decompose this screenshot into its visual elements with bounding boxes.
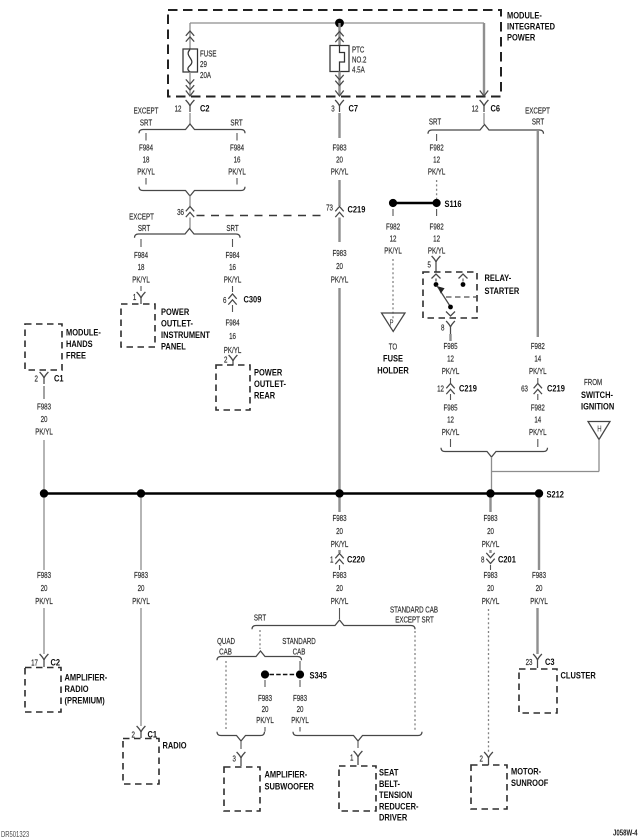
fuse F1: FUSE 29 20A [183,49,198,72]
label: drawing number DR501323 [1,830,29,839]
wire F982 12 PK/YL to relay pin 5 [428,209,446,256]
svg-text:REDUCER-: REDUCER- [379,801,419,812]
relay coil terminal (pin 5 side) [432,274,441,287]
module: SEAT BELT-TENSION REDUCER-DRIVER (dashed box) [339,766,376,811]
svg-text:AMPLIFIER-: AMPLIFIER- [265,769,308,780]
svg-text:5: 5 [428,259,431,269]
thermistor PTC NO.2 4.5A [330,46,349,72]
connector C1 pin 2 (hands free) [35,372,64,384]
svg-text:POWER: POWER [161,306,190,317]
wire: merge to connector 36 [189,196,191,207]
svg-text:F983: F983 [37,570,51,580]
wire F985 12 PK/YL from C219 to ignition merge [442,394,460,447]
split brace under C2 [139,124,245,133]
svg-text:16: 16 [229,262,236,272]
svg-text:1: 1 [330,554,333,564]
svg-text:3: 3 [233,753,236,763]
svg-text:C2: C2 [200,103,210,114]
terminal P (to fuse holder) [382,313,406,332]
svg-text:20: 20 [336,526,343,536]
svg-text:NO.2: NO.2 [352,54,366,64]
svg-text:2: 2 [35,373,38,383]
merge brace to seat-belt tension reducer [293,732,422,741]
wire: C2 stem to split [189,113,191,124]
svg-text:TENSION: TENSION [379,789,412,800]
wire: C6 branch drop (heavy) [480,23,488,96]
svg-text:F983: F983 [37,401,51,411]
label: FUSE 29 20A [200,48,217,80]
svg-text:EXCEPT: EXCEPT [525,105,550,115]
svg-text:C1: C1 [54,373,64,384]
relay common terminal to pin 8 [446,305,455,316]
svg-text:PANEL: PANEL [161,341,186,352]
svg-text:F985: F985 [443,341,457,351]
wire: SRT branch drop [259,630,261,649]
svg-text:C309: C309 [244,294,262,305]
svg-text:IGNITION: IGNITION [581,401,614,412]
svg-text:STANDARD CAB: STANDARD CAB [390,604,438,614]
svg-text:SUNROOF: SUNROOF [511,777,548,788]
wire F983 20 PK/YL from hands-free to splice bus [35,386,53,490]
module: AMPLIFIER-RADIO PREMIUM (dashed box) [25,668,61,713]
svg-text:P: P [389,320,393,328]
wire F983 20 PK/YL from S345 to seat-belt merge [291,680,309,732]
connector C7 pin 3 [331,100,358,114]
connector C219 pin 12 [437,383,477,395]
wire F983 20 PK/YL from C201 to motor-sunroof [482,565,500,752]
svg-text:S116: S116 [445,198,462,209]
svg-text:F982: F982 [430,142,444,152]
wire: fuse branch drop [189,23,191,49]
svg-text:CAB: CAB [293,646,306,656]
svg-text:C7: C7 [349,103,359,114]
connector pin 2 of motor-sunroof [480,752,493,765]
svg-text:TO: TO [389,341,398,351]
svg-text:2: 2 [224,354,227,364]
wire F983 20 PK/YL to C201 (heavy) [482,498,500,554]
svg-text:F982: F982 [531,341,545,351]
connector C220 pin 1 [330,554,365,565]
wire F983 20 PK/YL to amplifier-radio [35,498,53,655]
svg-text:16: 16 [229,331,236,341]
svg-text:PK/YL: PK/YL [529,427,547,437]
svg-text:36: 36 [177,207,184,217]
merge brace above splice 36 [139,187,245,196]
label: MODULE-HANDS FREE [66,327,101,361]
svg-text:20: 20 [41,583,48,593]
split brace: SRT vs standard-cab-except-SRT [252,620,415,629]
module: POWER OUTLET-INSTRUMENT PANEL (dashed box) [121,304,155,347]
merge brace to amplifier-subwoofer [217,732,265,741]
svg-text:1: 1 [133,292,136,302]
label: EXCEPT SRT (C6 split right) [525,105,550,126]
label: SEAT BELT-TENSION REDUCER-DRIVER [379,767,419,823]
wire: PTC to module edge with chevrons and arrow (heavy) [335,72,343,97]
label: POWER OUTLET-REAR [254,367,286,401]
wire: dashed tie to C219 [197,215,325,217]
svg-text:PK/YL: PK/YL [331,166,349,176]
svg-text:MODULE-: MODULE- [507,10,542,21]
svg-text:SRT: SRT [429,116,442,126]
svg-text:PK/YL: PK/YL [384,245,402,255]
label: sheet id J058W-4 [613,830,638,838]
split brace: quad cab vs standard cab [217,651,302,660]
svg-text:CAB: CAB [219,646,232,656]
connector pin 5 of starter relay [428,256,441,272]
split brace under C6 [428,125,544,134]
svg-text:EXCEPT SRT: EXCEPT SRT [395,614,434,624]
svg-text:RELAY-: RELAY- [485,272,512,283]
svg-text:F984: F984 [134,250,148,260]
svg-text:29: 29 [200,59,207,69]
svg-text:20: 20 [297,704,304,714]
wire: module internal feed bus [190,22,484,24]
svg-text:16: 16 [234,154,241,164]
wire: ignition feed to splice branch [492,440,600,491]
svg-text:SRT: SRT [230,117,243,127]
svg-text:STANDARD: STANDARD [282,636,316,646]
svg-text:PK/YL: PK/YL [132,274,150,284]
svg-text:FUSE: FUSE [383,353,403,364]
module: CLUSTER (dashed box) [519,669,557,713]
svg-text:HOLDER: HOLDER [377,365,409,376]
wire: C6 stem to split [483,113,485,124]
svg-text:FROM: FROM [584,377,602,387]
svg-text:F984: F984 [139,142,153,152]
svg-text:8: 8 [441,322,444,332]
connector C3 pin 23 (cluster) [526,654,555,668]
label: RELAY-STARTER [485,272,520,296]
wire F984 18 PK/YL to power outlet IP [132,239,150,291]
wire: PTC branch drop (heavy) [338,23,340,46]
svg-text:DRIVER: DRIVER [379,812,408,823]
label: SRT (C6 split left) [429,116,442,126]
relay K1: RELAY-STARTER (dashed box) [423,272,477,318]
svg-text:SWITCH-: SWITCH- [581,389,613,400]
connector C309 pin 6 [223,294,262,306]
label: FROM SWITCH-IGNITION [581,377,614,412]
svg-text:C219: C219 [547,383,565,394]
svg-text:18: 18 [138,262,145,272]
svg-text:OUTLET-: OUTLET- [254,378,286,389]
wire F984 16 PK/YL (SRT branch) [228,133,246,185]
svg-text:63: 63 [521,383,528,393]
svg-text:F983: F983 [258,693,272,703]
connector pin 1 of seat-belt tension reducer [350,741,362,765]
svg-text:F983: F983 [332,513,346,523]
svg-text:F984: F984 [230,142,244,152]
module: MODULE-HANDS FREE (dashed box) [25,324,62,370]
svg-text:PK/YL: PK/YL [132,596,150,606]
wire F983 20 PK/YL below C7 (heavy) [331,113,349,206]
svg-text:EXCEPT: EXCEPT [134,105,159,115]
connector C2 pin 12 [175,100,210,114]
label: STANDARD CAB (S345 branch) [282,636,316,657]
svg-text:DR501323: DR501323 [1,830,29,839]
svg-text:12: 12 [433,154,440,164]
svg-text:POWER: POWER [507,32,536,43]
module U1: MODULE-INTEGRATED POWER (dashed enclosure) [168,10,501,97]
label: TO FUSE HOLDER [377,341,409,375]
svg-text:20: 20 [138,583,145,593]
svg-text:PK/YL: PK/YL [482,539,500,549]
wire F983 20 PK/YL to radio [132,498,150,727]
wire: quad-cab branch to subwoofer merge [225,661,227,731]
wire: 36 to second split [189,218,191,229]
svg-text:PK/YL: PK/YL [331,274,349,284]
second split brace [135,229,241,238]
label: RADIO [163,740,187,751]
svg-text:20: 20 [487,526,494,536]
svg-text:12: 12 [390,233,397,243]
svg-text:SRT: SRT [254,612,267,622]
module: MOTOR-SUNROOF (dashed box) [471,765,507,809]
svg-text:14: 14 [534,414,541,424]
label: PTC NO.2 4.5A [352,44,366,74]
node: splice junction (ignition feed) [486,489,494,497]
svg-text:20: 20 [336,154,343,164]
svg-text:C3: C3 [545,656,555,667]
svg-text:12: 12 [433,233,440,243]
connector pin 2 of power outlet rear [224,354,237,365]
label: EXCEPT SRT (second split left) [129,211,154,233]
wire F983 20 PK/YL from S345 to subwoofer merge [256,680,274,732]
svg-text:RADIO: RADIO [163,740,187,751]
svg-text:2: 2 [480,753,483,763]
connector C219 pin 73 [326,202,365,217]
label: STANDARD CAB EXCEPT SRT (cab split right) [390,604,438,624]
svg-text:REAR: REAR [254,390,276,401]
label: SRT (right branch of C2 split) [230,117,243,127]
connector C6 pin 12 [472,100,501,114]
svg-text:F983: F983 [532,570,546,580]
relay internal dashed tie [446,296,476,298]
connector chevrons above fuse [186,31,194,42]
node: splice junction (radio branch) [137,489,145,497]
svg-text:EXCEPT: EXCEPT [129,211,154,221]
label: EXCEPT SRT (left branch of C2 split) [134,105,159,127]
svg-text:SRT: SRT [226,223,239,233]
svg-text:C2: C2 [51,657,61,668]
svg-text:S345: S345 [310,670,328,681]
node: splice S212 [535,489,564,500]
svg-text:PK/YL: PK/YL [530,596,548,606]
svg-text:12: 12 [437,383,444,393]
svg-text:PK/YL: PK/YL [35,596,53,606]
svg-text:(PREMIUM): (PREMIUM) [65,695,105,706]
wire F983 20 PK/YL from S212 to cluster (heavy) [530,498,548,655]
connector C2 pin 17 (amplifier-radio) [31,654,60,668]
svg-text:PK/YL: PK/YL [529,366,547,376]
wire F982 14 PK/YL from C6 split to C219 (heavy) [537,131,539,337]
wire F983 20 PK/YL from C219 to splice bus (heavy) [331,218,349,491]
wire F983 20 PK/YL to C220 (heavy) [331,498,349,554]
relay armature (movable contact) [437,286,450,307]
svg-text:C219: C219 [348,204,366,215]
svg-text:4.5A: 4.5A [352,64,365,74]
module: POWER OUTLET-REAR (dashed box) [216,365,250,410]
svg-text:20: 20 [336,583,343,593]
wire: except-SRT branch to seat-belt merge [414,631,416,731]
svg-text:23: 23 [526,657,533,667]
svg-text:POWER: POWER [254,367,283,378]
wire: standard-cab branch to splice S345 [299,661,301,670]
label: MOTOR-SUNROOF [511,766,548,789]
wire F982 12 PK/YL to splice S116 [428,134,446,199]
svg-text:FREE: FREE [66,350,86,361]
svg-text:J058W-4: J058W-4 [613,830,638,838]
svg-text:F984: F984 [225,317,239,327]
svg-text:73: 73 [326,202,333,212]
wire F984 16 PK/YL to C309 [224,239,242,292]
svg-text:3: 3 [331,103,334,113]
svg-text:C6: C6 [491,103,501,114]
node: junction of feed bus and PTC branch [335,19,344,28]
svg-text:12: 12 [447,414,454,424]
svg-text:20: 20 [336,261,343,271]
connector C201 pin 8 [481,553,516,565]
svg-text:14: 14 [534,353,541,363]
connector pin 8 of starter relay [441,321,455,334]
svg-text:6: 6 [223,295,226,305]
wire F984 18 PK/YL (except-SRT branch) [137,133,155,185]
module: RADIO (dashed box) [123,739,159,785]
svg-text:PK/YL: PK/YL [331,596,349,606]
svg-text:PK/YL: PK/YL [442,427,460,437]
svg-text:F982: F982 [430,221,444,231]
svg-text:SRT: SRT [140,117,153,127]
label: MODULE-INTEGRATED POWER [507,10,555,43]
svg-text:C219: C219 [459,383,477,394]
svg-text:PK/YL: PK/YL [35,426,53,436]
svg-text:20A: 20A [200,70,211,80]
svg-text:F983: F983 [332,142,346,152]
connector pin 3 of amplifier-subwoofer [233,741,246,766]
svg-text:PK/YL: PK/YL [442,366,460,376]
svg-text:20: 20 [41,414,48,424]
svg-text:PK/YL: PK/YL [256,715,274,725]
svg-text:F983: F983 [332,248,346,258]
svg-text:AMPLIFIER-: AMPLIFIER- [65,672,108,683]
svg-text:8: 8 [481,554,484,564]
merge brace to splice S212 feed [441,448,548,457]
svg-text:OUTLET-: OUTLET- [161,318,193,329]
svg-text:PK/YL: PK/YL [428,245,446,255]
wire F983 20 PK/YL from C220 to cab split [331,565,349,619]
svg-text:12: 12 [447,353,454,363]
svg-text:BELT-: BELT- [379,778,400,789]
svg-text:PK/YL: PK/YL [482,596,500,606]
svg-text:F983: F983 [134,570,148,580]
svg-text:F984: F984 [225,250,239,260]
label: SRT (cab split left) [254,612,267,622]
wire: splice bus to S212 [44,492,539,494]
svg-text:PK/YL: PK/YL [291,715,309,725]
svg-text:INSTRUMENT: INSTRUMENT [161,329,211,340]
wire F984 16 PK/YL to power outlet rear [224,305,242,355]
svg-text:PK/YL: PK/YL [428,166,446,176]
svg-text:PTC: PTC [352,44,365,54]
svg-text:STARTER: STARTER [485,285,520,296]
svg-text:F983: F983 [332,570,346,580]
svg-text:18: 18 [143,154,150,164]
connector chevrons above PTC [335,32,343,43]
svg-text:INTEGRATED: INTEGRATED [507,21,555,32]
svg-text:F982: F982 [386,221,400,231]
svg-text:C220: C220 [347,554,365,565]
relay fixed contact terminal [459,274,468,287]
svg-text:12: 12 [175,103,182,113]
node: splice junction (hands-free branch) [40,489,48,497]
svg-text:20: 20 [536,583,543,593]
svg-text:QUAD: QUAD [217,636,235,646]
svg-text:17: 17 [31,657,38,667]
svg-text:SEAT: SEAT [379,767,399,778]
svg-text:SUBWOOFER: SUBWOOFER [265,781,315,792]
wire F985 12 PK/YL from relay to C219 [442,334,460,383]
label F982 14 PK/YL (above C219 63) [529,341,547,383]
node: splice junction (C220 branch) [335,489,343,497]
svg-text:PK/YL: PK/YL [137,166,155,176]
node: splice S116 [389,198,462,209]
svg-text:12: 12 [472,103,479,113]
svg-text:HANDS: HANDS [66,338,93,349]
label: AMPLIFIER-RADIO (PREMIUM) [65,672,108,706]
connector C219 pin 63 [521,383,565,395]
svg-text:SRT: SRT [138,223,151,233]
svg-text:F982: F982 [531,402,545,412]
wire: fuse to module edge with connector chevrons and arrow [186,72,194,96]
node: splice S345 [261,670,327,681]
svg-text:1: 1 [350,752,353,762]
svg-text:F983: F983 [293,693,307,703]
svg-text:PK/YL: PK/YL [224,274,242,284]
connector C1 pin 2 (radio) [132,726,158,740]
label: AMPLIFIER-SUBWOOFER [265,769,315,792]
svg-text:F985: F985 [443,402,457,412]
svg-text:PK/YL: PK/YL [228,166,246,176]
svg-text:FUSE: FUSE [200,48,217,58]
label: QUAD CAB [217,636,235,657]
svg-text:MODULE-: MODULE- [66,327,101,338]
svg-text:F983: F983 [483,513,497,523]
svg-text:MOTOR-: MOTOR- [511,766,541,777]
svg-text:F983: F983 [483,570,497,580]
label: SRT (second split right) [226,223,239,233]
svg-text:S212: S212 [547,489,565,500]
svg-text:CLUSTER: CLUSTER [561,670,597,681]
module: AMPLIFIER-SUBWOOFER (dashed box) [224,767,260,811]
label: POWER OUTLET-INSTRUMENT PANEL [161,306,211,352]
wire F982 12 PK/YL to fuse holder [384,209,402,319]
svg-text:C201: C201 [498,554,516,565]
svg-text:RADIO: RADIO [65,683,89,694]
label: CLUSTER [561,670,597,681]
svg-text:20: 20 [487,583,494,593]
svg-text:H: H [597,426,601,434]
connector pin 1 of power outlet IP [133,292,146,304]
svg-text:PK/YL: PK/YL [331,539,349,549]
svg-text:20: 20 [262,704,269,714]
connector splice 36 [177,207,194,218]
terminal H (from switch-ignition) [588,422,610,440]
svg-text:SRT: SRT [532,116,545,126]
wire F982 14 PK/YL from C219 to ignition merge [529,394,547,447]
